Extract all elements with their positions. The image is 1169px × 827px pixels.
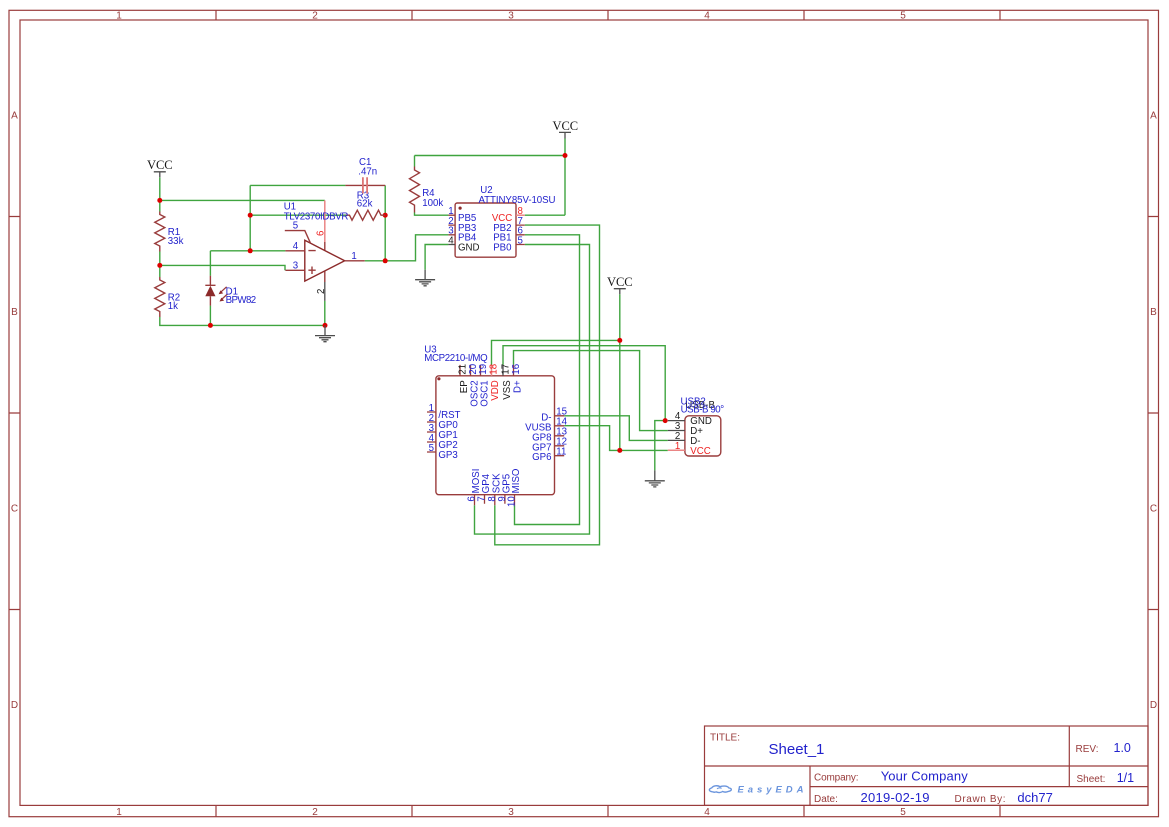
svg-text:D+: D+ xyxy=(513,380,524,393)
svg-text:D: D xyxy=(1150,700,1157,711)
IC U3 MCP2210-I/MQ xyxy=(424,344,567,507)
svg-text:5: 5 xyxy=(429,443,434,454)
svg-text:18: 18 xyxy=(489,364,500,375)
svg-text:11: 11 xyxy=(556,447,566,458)
svg-text:D: D xyxy=(11,700,18,711)
capacitor C1 .47n xyxy=(345,157,385,193)
node feedback/C1 branch xyxy=(248,213,253,218)
wire U2 pin8 to VCC2 xyxy=(525,214,565,216)
svg-text:MCP2210-I/MQ: MCP2210-I/MQ xyxy=(424,353,488,364)
wire node to D1 anode xyxy=(209,251,211,276)
wire node to U1 pin4 xyxy=(210,250,285,252)
ground (op-amp) xyxy=(315,325,335,341)
wire R2 bottom to ground row xyxy=(160,317,325,325)
svg-text:19: 19 xyxy=(478,364,489,375)
node R3/C1 right xyxy=(383,213,388,218)
svg-text:2: 2 xyxy=(312,807,318,818)
svg-text:GP6: GP6 xyxy=(532,452,551,463)
wire C1 branch vertical xyxy=(249,185,251,250)
svg-text:1: 1 xyxy=(116,11,122,22)
connector USB2 USB-B 90deg xyxy=(668,397,724,457)
wire R1 bottom to R2 top xyxy=(159,252,161,278)
svg-text:4: 4 xyxy=(448,235,454,246)
svg-text:5: 5 xyxy=(900,11,906,22)
svg-text:VSS: VSS xyxy=(502,380,513,400)
svg-text:OSC1: OSC1 xyxy=(480,380,491,406)
svg-text:TLV2370IDBVR: TLV2370IDBVR xyxy=(284,212,349,223)
svg-text:100k: 100k xyxy=(422,198,443,209)
svg-text:Your Company: Your Company xyxy=(881,769,969,784)
svg-text:A: A xyxy=(11,111,18,122)
IC U2 ATTINY85V-10SU xyxy=(448,185,555,257)
WIRES xyxy=(157,139,668,545)
wire VCC2 row to R4 xyxy=(415,155,566,157)
resistor R4 100k xyxy=(410,167,444,213)
svg-text:1: 1 xyxy=(116,807,122,818)
svg-text:PB0: PB0 xyxy=(493,242,512,253)
wire U2 PB1 to U3 MISO xyxy=(515,235,580,525)
svg-text:Sheet:: Sheet: xyxy=(1077,774,1106,785)
svg-text:C: C xyxy=(1150,504,1157,515)
svg-text:VCC: VCC xyxy=(690,446,710,457)
svg-text:VCC: VCC xyxy=(607,275,633,289)
wire USB GND to ground xyxy=(655,421,665,471)
svg-text:1k: 1k xyxy=(168,301,178,312)
svg-text:dch77: dch77 xyxy=(1017,790,1052,805)
svg-text:EP: EP xyxy=(459,380,470,393)
svg-text:ATTINY85V-10SU: ATTINY85V-10SU xyxy=(479,195,556,206)
svg-text:VDD: VDD xyxy=(490,380,501,400)
resistor R3 62k xyxy=(346,190,385,220)
wire VCC2 drop xyxy=(564,139,566,216)
svg-text:16: 16 xyxy=(511,364,522,375)
svg-text:4: 4 xyxy=(704,807,710,818)
svg-text:21: 21 xyxy=(458,364,469,375)
wire VCC3 drop to USB VCC xyxy=(619,294,621,450)
svg-text:VCC: VCC xyxy=(147,158,173,172)
node D1/ground row xyxy=(208,323,213,328)
power flag VCC (above U2) xyxy=(552,119,578,139)
node U1 pin4 branch xyxy=(248,248,253,253)
EasyEDA logo xyxy=(709,786,731,793)
svg-text:2: 2 xyxy=(312,11,318,22)
svg-text:REV:: REV: xyxy=(1076,744,1099,755)
node VCC3/VDD xyxy=(617,338,622,343)
node VCC3/VUSB xyxy=(617,448,622,453)
svg-text:Company:: Company: xyxy=(814,773,859,784)
svg-text:33k: 33k xyxy=(168,236,184,247)
svg-text:Sheet_1: Sheet_1 xyxy=(769,741,825,758)
wire U3 D- to USB D- xyxy=(564,416,668,441)
node U1 output xyxy=(383,258,388,263)
PARTS xyxy=(147,119,724,507)
wire VCC3 node to USB pin1 xyxy=(620,449,668,451)
ground (U2) xyxy=(415,270,435,286)
wire U2 GND to ground xyxy=(425,245,448,270)
wire D1 cathode to ground row xyxy=(209,306,211,326)
svg-text:C: C xyxy=(11,504,18,515)
svg-text:1/1: 1/1 xyxy=(1117,771,1134,785)
svg-text:GP3: GP3 xyxy=(438,450,457,461)
node VCC1/R1 xyxy=(157,198,162,203)
svg-text:4: 4 xyxy=(293,241,299,252)
svg-text:VCC: VCC xyxy=(552,119,578,133)
svg-text:USB-B 90°: USB-B 90° xyxy=(681,404,725,415)
wire U1 output to U2 PB4 xyxy=(365,235,449,261)
resistor R2 1k xyxy=(155,277,180,317)
svg-text:62k: 62k xyxy=(357,199,373,210)
wire C1 right to output node xyxy=(384,185,386,260)
wire divider node to U1 pin3 xyxy=(160,265,285,270)
node U1 pin2/ground xyxy=(323,323,328,328)
svg-text:B: B xyxy=(11,307,18,318)
svg-text:17: 17 xyxy=(501,364,512,375)
svg-text:10: 10 xyxy=(507,496,518,507)
wire U2 PB2 to U3 SCK xyxy=(495,225,600,545)
svg-text:BPW82: BPW82 xyxy=(226,295,257,306)
node USB GND/VSS xyxy=(663,418,668,423)
svg-text:Drawn By:: Drawn By: xyxy=(955,794,1006,805)
node divider R1/R2 xyxy=(157,263,162,268)
svg-text:2019-02-19: 2019-02-19 xyxy=(861,790,930,805)
op-amp U1 TLV2370IDBVR xyxy=(284,200,365,301)
svg-text:B: B xyxy=(1150,307,1157,318)
wire U2 PB0 to U3 MOSI xyxy=(475,245,590,535)
wire VCC1 to R1 top xyxy=(159,177,161,211)
wire U3 VSS to USB GND node xyxy=(503,346,665,421)
svg-text:5: 5 xyxy=(900,807,906,818)
svg-text:3: 3 xyxy=(508,807,514,818)
ground (USB) xyxy=(645,470,665,487)
svg-text:Date:: Date: xyxy=(814,794,838,805)
svg-text:4: 4 xyxy=(704,11,710,22)
wire VCC3 node to U3 VUSB xyxy=(564,426,620,451)
wire U1 pin2 to ground row xyxy=(324,301,326,326)
svg-text:1: 1 xyxy=(351,251,356,262)
power flag VCC (left) xyxy=(147,158,173,177)
svg-text:TITLE:: TITLE: xyxy=(710,733,740,744)
svg-text:2: 2 xyxy=(316,289,327,294)
svg-text:3: 3 xyxy=(293,261,298,272)
svg-text:1.0: 1.0 xyxy=(1114,741,1131,755)
wire VCC1 row to U1 pin6 xyxy=(160,199,325,201)
svg-text:MISO: MISO xyxy=(511,468,522,493)
svg-text:3: 3 xyxy=(508,11,514,22)
svg-text:5: 5 xyxy=(518,235,523,246)
svg-text:.47n: .47n xyxy=(358,167,377,178)
wire feedback row to R3 xyxy=(250,214,346,216)
wire U3 D+ to USB D+ xyxy=(514,351,668,431)
power flag VCC (middle) xyxy=(607,275,633,294)
wire U3 VDD to VCC3 xyxy=(492,340,620,365)
resistor R1 33k xyxy=(155,212,184,252)
photodiode D1 BPW82 xyxy=(205,276,256,306)
svg-text:6: 6 xyxy=(316,231,327,236)
svg-text:1: 1 xyxy=(675,441,680,452)
node VCC2 xyxy=(563,153,568,158)
wire R4 leads xyxy=(415,156,449,216)
wire to C1 left xyxy=(250,184,345,186)
svg-text:GND: GND xyxy=(458,242,480,253)
svg-text:A: A xyxy=(1150,111,1157,122)
TITLEBLOCK xyxy=(705,726,1149,805)
